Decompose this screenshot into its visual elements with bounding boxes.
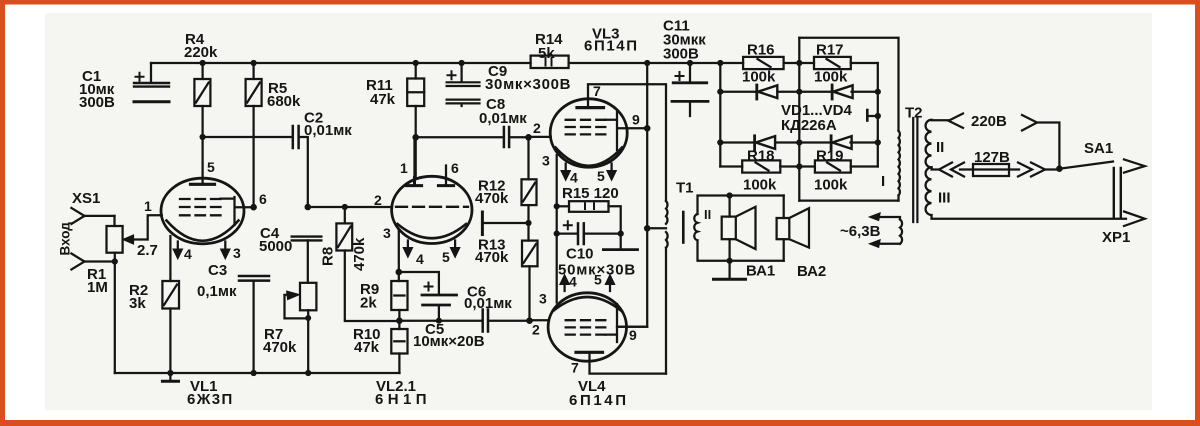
junction: BA1 top [727,192,733,198]
tube VL1 cathode lead to R2 [169,236,171,281]
connector forks 127V left [939,163,964,177]
tube VL3 screen bracket pin 9 [605,112,647,150]
wire: diode row 2 [720,141,878,143]
svg-text:SA1: SA1 [1084,140,1113,157]
diode VD1 [757,85,778,99]
tube VL4 cathode arc (inverted) [553,297,622,311]
tube VL3 heater pin 4 arrow [561,164,571,181]
svg-text:470k: 470k [475,190,509,207]
wire: phase splitter output line to C6 [399,320,481,322]
junction: R7 at ground rail [305,370,311,376]
resistor R15 [557,201,621,233]
wire: cathode column between R15 and VL4 [556,206,558,302]
tube VL4 envelope [548,293,626,361]
svg-text:300В: 300В [79,94,115,111]
tube VL1 heater pin 3 arrow [221,242,231,260]
svg-text:5: 5 [207,159,215,175]
junction: line A at rail [644,60,650,66]
tube VL2 heater pin 5 arrow [450,241,460,258]
wire: B+ screen column (line A) [617,63,647,327]
svg-text:4: 4 [184,246,192,262]
svg-text:2: 2 [532,322,540,338]
junction: R8 top on grid line [342,204,348,210]
svg-text:C10: C10 [566,246,594,263]
wire: anode line B lower (T1 to VL4 anode) [665,248,667,374]
svg-text:2.7: 2.7 [137,242,158,259]
svg-text:2k: 2k [360,295,377,312]
wire: 220V to SA1 junction [1037,123,1059,169]
diode VD4 [831,136,852,150]
tube VL2 anode 1 plate and pin 1 lead [406,178,421,186]
svg-text:II: II [704,207,711,222]
junction: C11 at rail [687,60,693,66]
wire: VL2 grid line [308,206,392,208]
anode bar at VL2 pin 6 [481,212,484,235]
svg-text:6П14П: 6П14П [569,392,629,409]
wire: mains bottom line [932,215,1127,218]
svg-text:0,01мк: 0,01мк [464,295,512,312]
svg-text:47k: 47k [354,339,380,356]
svg-text:30мк×300В: 30мк×300В [485,76,571,93]
B+ takeoff stub and terminal bar [867,110,878,121]
transformer T2 winding III [926,167,932,215]
junction: VL1 pin6 / R5 node [250,204,257,211]
svg-text:680k: 680k [267,93,301,110]
resistor R19 [799,160,878,172]
tube VL3 cathode arc [556,148,623,166]
svg-text:T2: T2 [905,105,923,122]
wire: R11 bottom to C8 [416,137,503,177]
trimmer R7 [285,283,317,373]
svg-text:5: 5 [594,272,602,288]
capacitor C3 [239,276,269,281]
potentiometer R1 [107,215,162,373]
svg-text:R18: R18 [747,148,775,165]
svg-text:I: I [881,173,885,190]
resistor R11 [407,63,424,137]
junction: row1 middle [796,89,802,95]
svg-text:5000: 5000 [259,238,292,255]
svg-text:9: 9 [632,112,640,128]
plug XP1 pin bars [1114,168,1121,217]
tube VL3 anode plate and pin 7 lead [577,106,604,109]
ground chassis under BA1 [714,261,746,280]
tube VL4 screen bracket pin 9 [605,304,647,342]
resistor R5 [246,63,262,207]
svg-text:3k: 3k [129,295,146,312]
svg-text:0,1мк: 0,1мк [197,283,237,300]
transformer T2 primary winding I [899,131,900,201]
svg-text:5: 5 [597,168,605,184]
wire: diode row 1 [720,91,878,93]
svg-text:0,01мк: 0,01мк [479,110,527,127]
svg-text:3: 3 [542,153,550,169]
plug XP1 bottom prong arrow [1124,212,1145,227]
plug XP1 top prong arrow [1124,159,1145,172]
capacitor C6 [483,310,488,332]
wire: bridge bottom line [799,199,898,201]
connector fork 220V left [949,114,964,128]
connector arrow 220V right [1022,115,1037,131]
svg-text:1: 1 [400,160,408,176]
svg-text:Вход: Вход [58,222,73,256]
svg-text:5: 5 [442,249,450,265]
junction: R11 top at rail [413,60,419,66]
svg-text:4: 4 [569,274,577,290]
capacitor C1 [134,63,169,102]
svg-text:127В: 127В [974,149,1010,166]
connector XS1 input jack [71,208,114,270]
wire: C6 to VL4 grid [489,319,549,322]
tube VL2 pin 1 lead outside [413,137,415,177]
chassis bar under R15/C10 column [603,234,637,250]
svg-text:5k: 5k [538,45,555,62]
svg-text:~6,3В: ~6,3В [840,223,881,240]
resistor R16 [743,57,784,69]
svg-text:ВА1: ВА1 [746,263,775,280]
junction: row2 middle [796,139,802,145]
junction: C10 right / R15 right column [618,231,624,237]
svg-text:4: 4 [416,251,424,267]
wire: bridge left column [719,63,721,167]
resistor R10 [391,329,407,373]
wire: bridge inner right column [877,63,879,167]
junction: R2 at ground rail [167,370,173,376]
svg-text:R15 120: R15 120 [562,185,619,202]
svg-text:470k: 470k [351,237,368,271]
tube VL4 heater pin 4 arrow (up) [560,275,570,292]
svg-text:7: 7 [593,83,601,99]
capacitor C9 [447,63,480,106]
junction: C8/R12/VL3 grid node [525,134,532,141]
switch SA1 lever [1059,162,1113,169]
tube VL3 pin 7 lead [588,84,665,107]
junction: row1 left [717,89,723,95]
svg-text:XS1: XS1 [72,190,100,207]
wire: 127V tap [932,167,940,169]
tube VL2 pin 6 stub [445,166,447,186]
svg-text:C3: C3 [208,262,227,279]
resistor R4 [194,63,210,137]
junction: BA1 bottom [727,258,733,264]
svg-text:ВА2: ВА2 [797,263,826,280]
junction: R9/R10/C5/C6 node [396,317,403,324]
svg-text:R16: R16 [747,42,775,59]
junction: R7 wiper tie [305,315,311,321]
tube VL2 envelope [392,176,472,243]
wire: T1 secondary to speaker loop [698,196,784,261]
svg-text:R19: R19 [816,148,844,165]
capacitor C4 [292,237,322,283]
svg-text:R8: R8 [320,247,337,266]
wire: C8 to VL3 grid [510,136,551,139]
resistor R13 [522,241,538,321]
svg-text:100k: 100k [814,177,848,194]
junction: R18/R19 at middle column [796,163,802,169]
svg-text:КД226А: КД226А [781,117,837,134]
tube VL1 anode plate and pin 5 lead [191,183,215,186]
junction: C3 at ground rail [251,370,257,376]
speaker BA2 [777,196,809,261]
junction: VL3 cathode / R15 left [554,203,560,209]
junction: bridge left column at rail [717,60,723,66]
svg-text:XP1: XP1 [1102,229,1130,246]
svg-text:6: 6 [259,191,267,207]
tube VL1 cathode arc [167,221,239,241]
transformer T1 primary winding [666,201,668,248]
junction: R5 top at rail [251,60,257,66]
transformer T2 core [913,118,917,222]
svg-text:6Н1П: 6Н1П [375,391,431,408]
junction: C2/C4/VL2 grid node [305,204,312,211]
svg-text:II: II [936,139,944,156]
junction: VL2 cathode / C5 node [396,269,403,276]
junction: C9 at rail [459,60,465,66]
svg-text:3: 3 [383,225,391,241]
svg-text:2: 2 [374,192,382,208]
junction: row2 right [875,139,881,145]
speaker BA1 [722,196,756,261]
svg-text:47k: 47k [370,91,396,108]
svg-text:100k: 100k [814,69,848,86]
wire: bridge top line to T2 primary [799,38,898,131]
wire: ground rail [115,372,400,374]
wire: 127V to SA1 junction [1044,168,1059,170]
capacitor C5 [422,283,457,321]
capacitor C8 [504,127,509,147]
wire: VL1 anode to C2 node [203,137,292,184]
junction: row2 left [717,139,723,145]
tube VL2 heater pin 4 arrow [403,241,413,258]
wire: T1 center tap to B+ [647,227,666,229]
tube VL4 pin 7 lead [590,352,667,373]
svg-text:6: 6 [451,160,459,176]
junction: R11/C8/VL2 pin1 node [412,134,419,141]
svg-text:2: 2 [533,120,541,136]
connector arrows 127V right [1018,163,1045,177]
svg-text:0,01мк: 0,01мк [304,122,352,139]
tube VL1 screen bracket to pin 6 [221,197,254,225]
transformer T2 heater winding with arrows [869,213,902,248]
junction: VL3/VL4 cathode column C10 left [554,231,560,237]
junction: C6/R13/VL4 grid node [526,317,533,324]
tube VL1 heater pin 4 arrow [173,242,183,260]
resistor R18 [720,160,799,172]
tube VL2 anode 2 plate and pin 6 stub [438,184,453,187]
resistor R8 [336,207,399,321]
capacitor C11 [672,63,708,116]
svg-text:220k: 220k [184,44,218,61]
svg-text:470k: 470k [263,339,297,356]
transformer T1 secondary winding [694,214,697,240]
svg-text:6Ж3П: 6Ж3П [187,391,234,408]
tube VL1 grid dashes [180,199,221,215]
svg-text:3: 3 [539,291,547,307]
resistor R2 [162,281,179,373]
junction: VL3 pin9 at B+ column [644,125,651,132]
svg-text:III: III [938,190,951,207]
tube VL4 heater pin 5 arrow (up) [605,275,615,292]
tube VL3 grid dashes [566,120,606,135]
svg-text:470k: 470k [475,249,509,266]
tube VL1 envelope [161,178,244,244]
transformer T1 core [682,212,685,243]
svg-text:7: 7 [571,360,579,376]
svg-text:3: 3 [233,245,241,261]
wire: anode line B upper (VL3 anode down to T1) [665,84,667,201]
svg-text:T1: T1 [676,180,694,197]
tube VL3 envelope [550,99,627,167]
wire: R5/C3 column to ground rail [252,282,254,373]
junction: SA1 input node [1056,165,1063,172]
wire: bridge middle column [798,38,800,201]
svg-text:6П14П: 6П14П [584,38,639,55]
tube VL2 grid dashed line [396,206,468,208]
svg-text:R17: R17 [816,42,844,59]
wire: forks to fuse [960,168,973,170]
svg-text:4: 4 [570,170,578,186]
resistor R17 [814,57,851,69]
resistor R14 [531,56,569,68]
resistor R12 [522,137,537,240]
tube VL3 cathode pin 3 lead [556,155,558,206]
resistor R9 [391,272,407,329]
junction: row1 right [875,89,881,95]
svg-text:220В: 220В [971,113,1007,130]
diode VD3 [755,136,776,150]
svg-text:9: 9 [629,327,637,343]
fuse FU1 [973,164,1019,176]
tube VL2 cathode arc [398,224,467,238]
svg-text:10мк×20В: 10мк×20В [413,333,485,350]
junction: R16/R17 at middle column [796,60,802,66]
tube VL2 cathode pin 3 lead [398,231,400,273]
svg-text:1: 1 [144,198,152,214]
transformer T2 winding II [926,120,932,168]
junction: XS1 lower to R1 bottom [112,258,118,264]
junction: center tap at line A [644,225,651,232]
wire: 220V tap [932,119,949,121]
junction: C5 bottom node [436,318,442,324]
capacitor C10 [557,221,621,244]
wire: VL2 anode bar to R12/R13 node [484,222,529,224]
tube VL3 heater pin 5 arrow [607,164,617,181]
tube VL4 grid dashes [566,320,606,334]
diode VD2 [832,85,853,99]
wire: B+ top rail left segment [151,62,878,64]
junction: takeoff at inner column [875,113,881,119]
ground chassis symbol [162,373,178,381]
junction: R12/R13 mid node [525,220,531,226]
svg-text:1М: 1М [87,279,108,296]
wire: cathode node to C5 top [399,272,439,294]
tube VL4 anode plate and pin 7 lead [576,351,603,354]
junction: R4 bottom node [200,134,206,140]
junction: R4 top at rail [200,60,206,66]
svg-text:300В: 300В [663,46,699,63]
svg-text:100k: 100k [743,177,777,194]
svg-text:100k: 100k [742,69,776,86]
capacitor C2 [293,126,308,207]
